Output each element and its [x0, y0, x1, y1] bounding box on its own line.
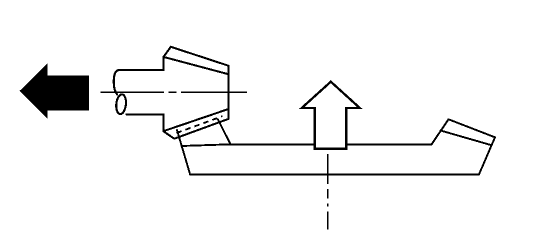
right end upturn left edge: [432, 119, 449, 144]
taper cone: [163, 47, 228, 139]
cone top chamfer cap: [164, 47, 171, 57]
cone bottom inner edge: [163, 109, 228, 131]
right end top inner edge: [441, 131, 492, 146]
shaft end face (ellipse): [115, 94, 127, 115]
right end top outer edge: [449, 119, 496, 137]
shaft rounded left end (arc): [114, 70, 119, 95]
cone big-end vertical edge (upper): [163, 57, 165, 70]
holder body: [177, 119, 495, 174]
arm left edge: [177, 130, 190, 174]
cone small-end vertical edge: [228, 66, 230, 119]
cone top inner edge: [164, 57, 229, 74]
right end right edge: [479, 137, 495, 174]
cone bottom chamfer cap: [163, 131, 174, 139]
cone big-end vertical edge (lower): [163, 114, 165, 131]
vertical centerline below up arrow: [327, 154, 329, 230]
hidden edge (dashed) on cone bottom: [177, 116, 223, 133]
bar top line: [231, 143, 432, 145]
arm right edge: [218, 120, 231, 145]
horizontal centerline of shank: [101, 91, 248, 93]
cone bottom outer edge: [174, 119, 228, 139]
arm crease line: [182, 144, 231, 146]
up arrow (outlined): [302, 82, 360, 149]
pilot shaft (cylinder): [114, 70, 164, 115]
direction arrow (solid black, pointing left): [20, 63, 89, 118]
cone top outer edge: [171, 47, 229, 66]
bar bottom line: [190, 173, 479, 175]
